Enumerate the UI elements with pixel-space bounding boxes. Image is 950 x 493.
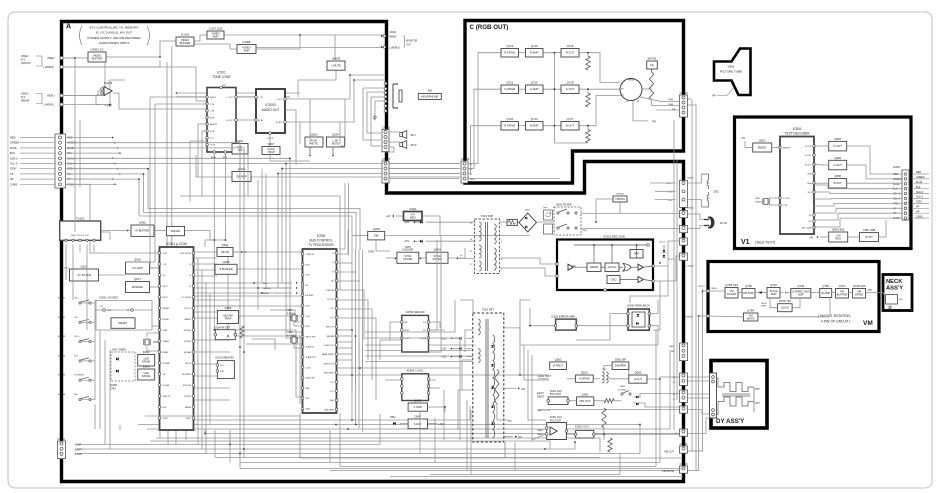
svg-text:R OUT: R OUT — [276, 122, 283, 124]
connector CN601 mains — [680, 211, 688, 218]
svg-text:UB: UB — [672, 109, 676, 111]
svg-text:G1: G1 — [621, 84, 623, 86]
line filter caps — [544, 210, 553, 220]
svg-text:X002: X002 — [153, 342, 159, 344]
svg-text:Q766: Q766 — [797, 284, 804, 288]
svg-text:IF-BUFFER: IF-BUFFER — [135, 229, 149, 233]
svg-text:PB AMP: PB AMP — [743, 291, 753, 295]
svg-text:100N: 100N — [669, 351, 675, 353]
svg-text:STBY: STBY — [163, 418, 169, 420]
svg-text:17: 17 — [470, 223, 472, 225]
svg-text:B OUT: B OUT — [834, 181, 843, 185]
C block load resistors — [586, 56, 590, 70]
svg-text:Q759: Q759 — [745, 284, 752, 288]
left input bus wires — [20, 137, 55, 139]
svg-text:55CMB: 55CMB — [163, 363, 171, 365]
connector CN506 H — [680, 373, 688, 385]
svg-text:CH +: CH + — [74, 298, 80, 300]
svg-text:VM MUTE: VM MUTE — [662, 469, 674, 473]
svg-text:L MUTE: L MUTE — [331, 64, 341, 68]
wire vco2 trap — [269, 133, 271, 147]
svg-text:B OUT: B OUT — [805, 164, 812, 166]
svg-text:X301: X301 — [287, 332, 293, 334]
svg-text:BLK: BLK — [893, 188, 898, 191]
svg-text:BUFFER: BUFFER — [132, 285, 143, 289]
svg-text:S BUFFER: S BUFFER — [219, 267, 232, 271]
svg-text:SRCS: SRCS — [185, 363, 191, 365]
svg-text:CVBS: CVBS — [10, 182, 17, 186]
svg-text:VIDEO: VIDEO — [389, 36, 397, 39]
svg-text:PIN CONT: PIN CONT — [550, 393, 562, 396]
svg-text:SW: SW — [374, 234, 379, 238]
slice — [778, 304, 793, 312]
svg-text:CVBS: CVBS — [916, 215, 923, 218]
svg-text:R IN: R IN — [210, 131, 215, 133]
svg-text:SW004: SW004 — [58, 355, 66, 357]
svg-text:Q765: Q765 — [822, 284, 829, 288]
svg-text:CN106: CN106 — [382, 157, 391, 161]
wire crt socket to right rails — [688, 98, 692, 100]
svg-text:SDA-TU: SDA-TU — [163, 395, 171, 398]
svg-text:WEST: WEST — [537, 395, 545, 399]
svg-text:MUTE: MUTE — [332, 141, 340, 145]
svg-text:REG: REG — [835, 236, 841, 240]
wire RGB bus to IC300 — [66, 158, 303, 332]
svg-text:G AMP: G AMP — [530, 87, 539, 91]
svg-text:IC601 REG S/W: IC601 REG S/W — [603, 235, 625, 239]
svg-text:Q 209: Q 209 — [238, 167, 246, 171]
svg-text:AMP: AMP — [244, 48, 250, 52]
svg-text:SCL-0: SCL-0 — [68, 163, 75, 166]
wire T601 left diodes — [426, 221, 475, 223]
sync filter Q054 — [426, 252, 448, 263]
svg-text:ASS'Y: ASS'Y — [886, 286, 903, 292]
pb amp — [742, 289, 755, 299]
svg-text:F601: F601 — [582, 230, 588, 232]
speaker SP R — [400, 143, 403, 147]
svg-text:IC602 ERROR AMP: IC602 ERROR AMP — [551, 315, 575, 319]
svg-text:C4006: C4006 — [242, 40, 251, 44]
wire tuner down — [65, 252, 67, 280]
wire right rail stubs — [692, 450, 703, 452]
resistor R004 — [240, 326, 244, 338]
svg-text:IC002 +5V REG: IC002 +5V REG — [99, 296, 118, 300]
svg-text:VM: VM — [863, 320, 873, 327]
svg-text:R IN: R IN — [259, 120, 264, 122]
svg-text:RESET: RESET — [783, 148, 791, 150]
svg-text:R OUT: R OUT — [805, 146, 812, 148]
V1 right bus labels — [912, 173, 929, 175]
secam trap Q306 — [217, 311, 238, 324]
svg-text:B IN: B IN — [306, 326, 311, 328]
svg-text:D003: D003 — [143, 365, 150, 369]
transformer T601 — [475, 219, 500, 274]
svg-text:Q204: Q204 — [332, 133, 339, 137]
svg-text:T601 SMP: T601 SMP — [481, 214, 494, 218]
svg-text:Q402: Q402 — [139, 221, 146, 225]
h drive Q501 — [576, 375, 594, 382]
svg-text:+5V: +5V — [741, 138, 746, 140]
svg-text:SP R: SP R — [411, 143, 417, 147]
svg-text:1: 1 — [475, 317, 476, 319]
svg-text:C807 808: C807 808 — [863, 228, 876, 232]
wire secam trap to ic300 — [238, 315, 302, 317]
connector video in pins — [60, 56, 63, 59]
svg-text:SECP FBT: SECP FBT — [306, 336, 317, 338]
svg-text:R-Y: R-Y — [330, 317, 334, 319]
svg-text:IC201: IC201 — [217, 71, 226, 75]
video amp Q007 — [207, 31, 224, 39]
svg-text:VP: VP — [10, 172, 14, 176]
svg-text:VSYNL: VSYNL — [184, 396, 192, 398]
svg-text:EAST: EAST — [537, 391, 544, 395]
wire audio headphone runs — [362, 88, 364, 140]
svg-text:BUFFER: BUFFER — [837, 293, 848, 297]
svg-text:SAAE WENT: SAAE WENT — [322, 353, 335, 356]
svg-text:VIDEO: VIDEO — [711, 288, 718, 290]
video buffer C4003 — [88, 52, 106, 62]
damper D561 — [612, 362, 629, 370]
svg-text:R IN: R IN — [210, 117, 215, 119]
svg-text:H2: H2 — [637, 101, 639, 103]
svg-text:Q813: Q813 — [759, 139, 766, 143]
svg-text:SNF401: SNF401 — [171, 229, 181, 233]
transistor Q719 R out — [561, 49, 579, 58]
wire power chain — [581, 213, 686, 215]
svg-text:CN510: CN510 — [680, 462, 689, 466]
svg-text:C DB: C DB — [306, 367, 312, 369]
svg-text:IC2003: IC2003 — [265, 103, 276, 107]
svg-text:Q762: Q762 — [770, 283, 777, 287]
vm mute — [743, 313, 758, 321]
svg-text:D601: D601 — [525, 210, 531, 212]
ic600 feedback — [628, 309, 649, 330]
svg-text:IC600 FEED BACK: IC600 FEED BACK — [627, 304, 650, 308]
svg-text:TNP601: TNP601 — [615, 197, 625, 201]
crystal X002 — [145, 339, 149, 345]
svg-text:STBY: STBY — [916, 201, 923, 204]
svg-text:B-CLK: B-CLK — [75, 453, 82, 456]
V1 st-by — [860, 233, 879, 242]
dy connector — [710, 373, 717, 418]
svg-text:DRIVE: DRIVE — [142, 374, 150, 378]
transistor Q713 R drive — [501, 49, 519, 58]
svg-text:B OUT: B OUT — [566, 124, 575, 128]
svg-text:( VM OUT, ROTATION,: ( VM OUT, ROTATION, — [818, 314, 851, 318]
V1 connector CN801 — [902, 170, 909, 220]
svg-text:R OUT: R OUT — [566, 51, 575, 55]
svg-text:Q711: Q711 — [506, 81, 513, 85]
svg-text:AGC TU G-V U-H: AGC TU G-V U-H — [71, 234, 89, 237]
svg-text:H-DRIVE: H-DRIVE — [579, 377, 590, 381]
svg-text:200N: 200N — [668, 104, 674, 106]
svg-text:VM: VM — [899, 299, 902, 301]
svg-text:RED: RED — [893, 173, 898, 176]
transistor Q717 B out — [561, 122, 579, 131]
flyback transformer T561 — [473, 313, 504, 442]
svg-text:Q451: Q451 — [582, 392, 589, 396]
svg-text:SDA: SDA — [306, 408, 311, 411]
svg-text:CVBS IN: CVBS IN — [326, 290, 335, 292]
svg-text:SW002: SW002 — [58, 317, 66, 319]
power switch SW601 — [554, 207, 581, 235]
tuner TU101 — [60, 221, 101, 240]
crt heater wires — [640, 97, 679, 101]
svg-text:DRIVE: DRIVE — [142, 360, 150, 364]
h protect Q502 — [550, 362, 567, 370]
svg-text:G DRIVE: G DRIVE — [504, 87, 515, 91]
svg-text:HP: HP — [10, 177, 14, 181]
svg-text:P IN: P IN — [306, 275, 311, 277]
svg-text:BUS CONTROL: BUS CONTROL — [309, 239, 332, 243]
svg-text:SYS CONTROLLER, TU, MEMORY: SYS CONTROLLER, TU, MEMORY — [89, 26, 139, 30]
svg-text:BLK: BLK — [68, 152, 73, 155]
svg-text:L IN: L IN — [210, 111, 214, 113]
svg-text:CVBS IN: CVBS IN — [306, 254, 315, 256]
svg-text:CN801: CN801 — [893, 167, 901, 169]
L mute Q4005 — [327, 61, 345, 70]
svg-text:BLK: BLK — [10, 151, 15, 155]
svg-text:RED: RED — [916, 171, 921, 174]
svg-text:VC: VC — [163, 275, 166, 277]
ic IC2003 audio out — [256, 89, 285, 133]
wire power input right — [686, 214, 708, 220]
svg-text:Q713: Q713 — [506, 44, 513, 48]
wire fbt left inputs — [465, 330, 473, 352]
wire tuner — [60, 231, 64, 233]
block VM outline — [708, 262, 879, 332]
monitor out label — [383, 35, 386, 38]
svg-text:IC004 IR DET: IC004 IR DET — [214, 326, 231, 330]
video buffer IC003 — [176, 37, 194, 46]
svg-text:TV PROCESSOR: TV PROCESSOR — [308, 243, 334, 247]
wire extra density pass - left mid — [66, 143, 241, 172]
picture tube V901 — [714, 49, 751, 96]
wire monitor out — [381, 35, 383, 37]
transistor Q805 G out — [829, 160, 847, 170]
svg-text:L OUT: L OUT — [227, 97, 234, 99]
mute Q304 — [217, 248, 233, 257]
svg-text:+12V: +12V — [441, 356, 447, 359]
wire IC601 out — [653, 241, 684, 266]
svg-text:XTAL: XTAL — [163, 329, 169, 332]
wire vout chain — [566, 433, 575, 435]
regulator IC021 — [404, 212, 423, 221]
svg-text:H-PROT: H-PROT — [553, 364, 564, 368]
audio small boxes row — [232, 144, 248, 155]
svg-text:Q717: Q717 — [567, 117, 574, 121]
vc amp Q016 — [126, 262, 150, 274]
pb buffer — [836, 289, 849, 299]
svg-text:V901: V901 — [727, 65, 734, 69]
transistor Q718 G out — [561, 85, 579, 94]
connector CN511 vm out — [680, 446, 688, 453]
svg-text:DE EMP: DE EMP — [236, 174, 247, 178]
svg-text:W/DIM: W/DIM — [110, 385, 117, 387]
svg-text:IC300: IC300 — [317, 234, 326, 238]
svg-text:RESET: RESET — [758, 145, 767, 149]
svg-text:+7V: +7V — [99, 306, 103, 308]
svg-text:11: 11 — [470, 264, 472, 266]
svg-text:V-PIN OF CIRCUIT ): V-PIN OF CIRCUIT ) — [821, 320, 850, 324]
svg-text:UC MUTE: UC MUTE — [182, 297, 192, 299]
svg-text:4: 4 — [501, 241, 502, 243]
svg-text:ASAT1: ASAT1 — [185, 318, 192, 321]
svg-text:RCL: RCL — [223, 157, 228, 159]
svg-text:REMP: REMP — [163, 352, 170, 354]
video amp C4006 — [237, 45, 256, 54]
svg-text:VP: VP — [893, 207, 897, 210]
svg-text:W AMP: W AMP — [821, 291, 830, 295]
wire vc filter net — [99, 274, 125, 276]
C block interconnect rail — [553, 53, 555, 143]
svg-text:CN904: CN904 — [680, 91, 689, 95]
wire de-emp — [196, 155, 232, 177]
svg-text:Q767: Q767 — [839, 284, 846, 288]
fbt left feeds — [466, 337, 473, 339]
transistor Q715 G amp — [526, 85, 544, 94]
svg-text:OUT: OUT — [107, 310, 112, 312]
svg-text:IL-M: IL-M — [163, 253, 167, 255]
svg-text:R-Y: R-Y — [330, 391, 334, 393]
svg-text:MV701: MV701 — [648, 57, 657, 61]
ic IC601 reg switching — [557, 240, 653, 291]
svg-text:RED: RED — [10, 136, 16, 140]
svg-text:CN511: CN511 — [680, 442, 688, 446]
svg-text:IC801: IC801 — [793, 127, 802, 131]
svg-text:CN601: CN601 — [687, 208, 695, 210]
svg-text:GREEN: GREEN — [893, 178, 902, 181]
svg-text:SG: SG — [650, 63, 654, 67]
svg-text:BUFFER: BUFFER — [92, 56, 103, 60]
svg-text:+15V: +15V — [441, 348, 447, 351]
svg-text:STBY: STBY — [893, 202, 900, 205]
svg-text:TRAP: TRAP — [267, 150, 274, 154]
svg-text:SW005: SW005 — [58, 375, 66, 377]
reset Q813 — [753, 143, 772, 152]
svg-text:C (RGB OUT): C (RGB OUT) — [470, 24, 509, 31]
svg-text:Q716: Q716 — [531, 44, 538, 48]
svg-text:SECMB: SECMB — [327, 336, 335, 338]
svg-text:MONITOR: MONITOR — [406, 40, 418, 43]
right side vertical rails — [691, 100, 693, 451]
svg-text:POWER SUPPLY, SECAM DECODER: POWER SUPPLY, SECAM DECODER — [87, 36, 141, 40]
connector CN602 osc — [680, 181, 688, 208]
svg-text:AMP: AMP — [798, 293, 804, 297]
svg-text:OUT: OUT — [406, 44, 412, 47]
V1 bus wires to connector — [814, 185, 905, 189]
svg-text:SHIFT: SHIFT — [761, 306, 767, 308]
svg-text:VM MUTE: VM MUTE — [683, 317, 694, 319]
vm input pins — [707, 290, 710, 293]
svg-text:4.43MHz: 4.43MHz — [287, 336, 297, 338]
svg-text:CVBS: CVBS — [68, 183, 75, 186]
svg-text:14: 14 — [470, 239, 472, 241]
svg-text:SCL-0: SCL-0 — [10, 162, 18, 166]
svg-text:MUTE: MUTE — [310, 141, 318, 145]
svg-text:PIN OUT: PIN OUT — [580, 399, 591, 403]
svg-text:R OUT: R OUT — [834, 144, 843, 148]
svg-text:RED: RED — [68, 137, 73, 140]
svg-text:Q304: Q304 — [222, 243, 229, 247]
block V1 tele text outline — [735, 117, 912, 249]
svg-text:AUDIO/VIDEO INPUT: AUDIO/VIDEO INPUT — [99, 41, 130, 45]
ic IC054 1HOL — [402, 374, 429, 401]
svg-text:HP: HP — [712, 94, 716, 98]
svg-text:A: A — [66, 24, 71, 31]
svg-text:REG: REG — [410, 215, 416, 219]
svg-text:G OUT: G OUT — [566, 87, 575, 91]
wire q208 stby run — [352, 235, 360, 237]
svg-text:CASLILER: CASLILER — [402, 249, 413, 252]
svg-text:DSC: DSC — [714, 190, 720, 194]
wire IC201 bottom sda scl down — [213, 152, 215, 247]
svg-text:SECAM: SECAM — [184, 351, 192, 354]
wire video input to buffer — [64, 57, 88, 59]
svg-text:VIDEO: VIDEO — [47, 57, 55, 60]
slice amp — [767, 288, 780, 299]
junction dots — [349, 74, 351, 76]
svg-text:BLK: BLK — [916, 186, 921, 189]
svg-text:PN: PN — [652, 119, 656, 123]
svg-text:VM: VM — [868, 290, 872, 292]
svg-text:IF, Y/C JUNGLE, H/V OUT: IF, Y/C JUNGLE, H/V OUT — [96, 31, 133, 35]
svg-text:C4003 1/2: C4003 1/2 — [91, 48, 104, 52]
connector CN101 — [58, 441, 66, 459]
correcting amp — [791, 289, 811, 299]
svg-text:IC003 MEMORY: IC003 MEMORY — [215, 356, 235, 360]
connector single P — [680, 406, 688, 413]
posistor TNP601 — [613, 196, 627, 202]
svg-text:VSYNC: VSYNC — [184, 341, 192, 343]
svg-text:HEADPHONE: HEADPHONE — [421, 94, 438, 98]
svg-text:J4001: J4001 — [390, 31, 397, 34]
dy wires — [717, 378, 719, 387]
svg-text:MUTE: MUTE — [221, 250, 229, 254]
svg-text:EXTAL: EXTAL — [163, 318, 170, 321]
wire ic054 nets — [270, 310, 302, 322]
wire sda scl to ic300 — [214, 247, 302, 397]
svg-text:EXP MUTE: EXP MUTE — [180, 253, 191, 255]
svg-text:CLK: CLK — [220, 365, 225, 367]
svg-text:IC1216: IC1216 — [104, 81, 113, 85]
svg-text:Q502: Q502 — [555, 357, 562, 361]
svg-text:CN 01: CN 01 — [58, 437, 66, 441]
svg-text:L (MONO): L (MONO) — [43, 104, 54, 107]
svg-text:Q305: Q305 — [223, 260, 230, 264]
svg-text:VP: VP — [68, 173, 72, 176]
svg-text:KEY1: KEY1 — [163, 286, 169, 288]
wire extra density - mid right — [365, 338, 460, 368]
svg-text:VC AMP: VC AMP — [132, 266, 142, 270]
svg-text:IC054 SECAM: IC054 SECAM — [406, 310, 425, 314]
svg-text:V1: V1 — [741, 239, 750, 246]
svg-text:STBY: STBY — [10, 167, 17, 171]
wire T601 to IC601 — [500, 258, 557, 264]
svg-text:Q718: Q718 — [567, 81, 574, 85]
pin out Q451 — [577, 397, 594, 406]
svg-text:SDA-0: SDA-0 — [68, 157, 76, 160]
svg-text:VOL +: VOL + — [74, 336, 81, 338]
svg-text:2: 2 — [501, 225, 502, 227]
transistor Q711 G drive — [501, 85, 519, 94]
wire ic001 to ic300 rungs — [233, 251, 303, 253]
svg-text:B AMP: B AMP — [530, 124, 538, 128]
svg-text:DOCT: DOCT — [668, 259, 675, 261]
ic IC300 tv processor — [303, 249, 337, 413]
wire fbt to hout — [504, 328, 549, 375]
svg-text:DAT3 IM/3: DAT3 IM/3 — [324, 408, 335, 411]
